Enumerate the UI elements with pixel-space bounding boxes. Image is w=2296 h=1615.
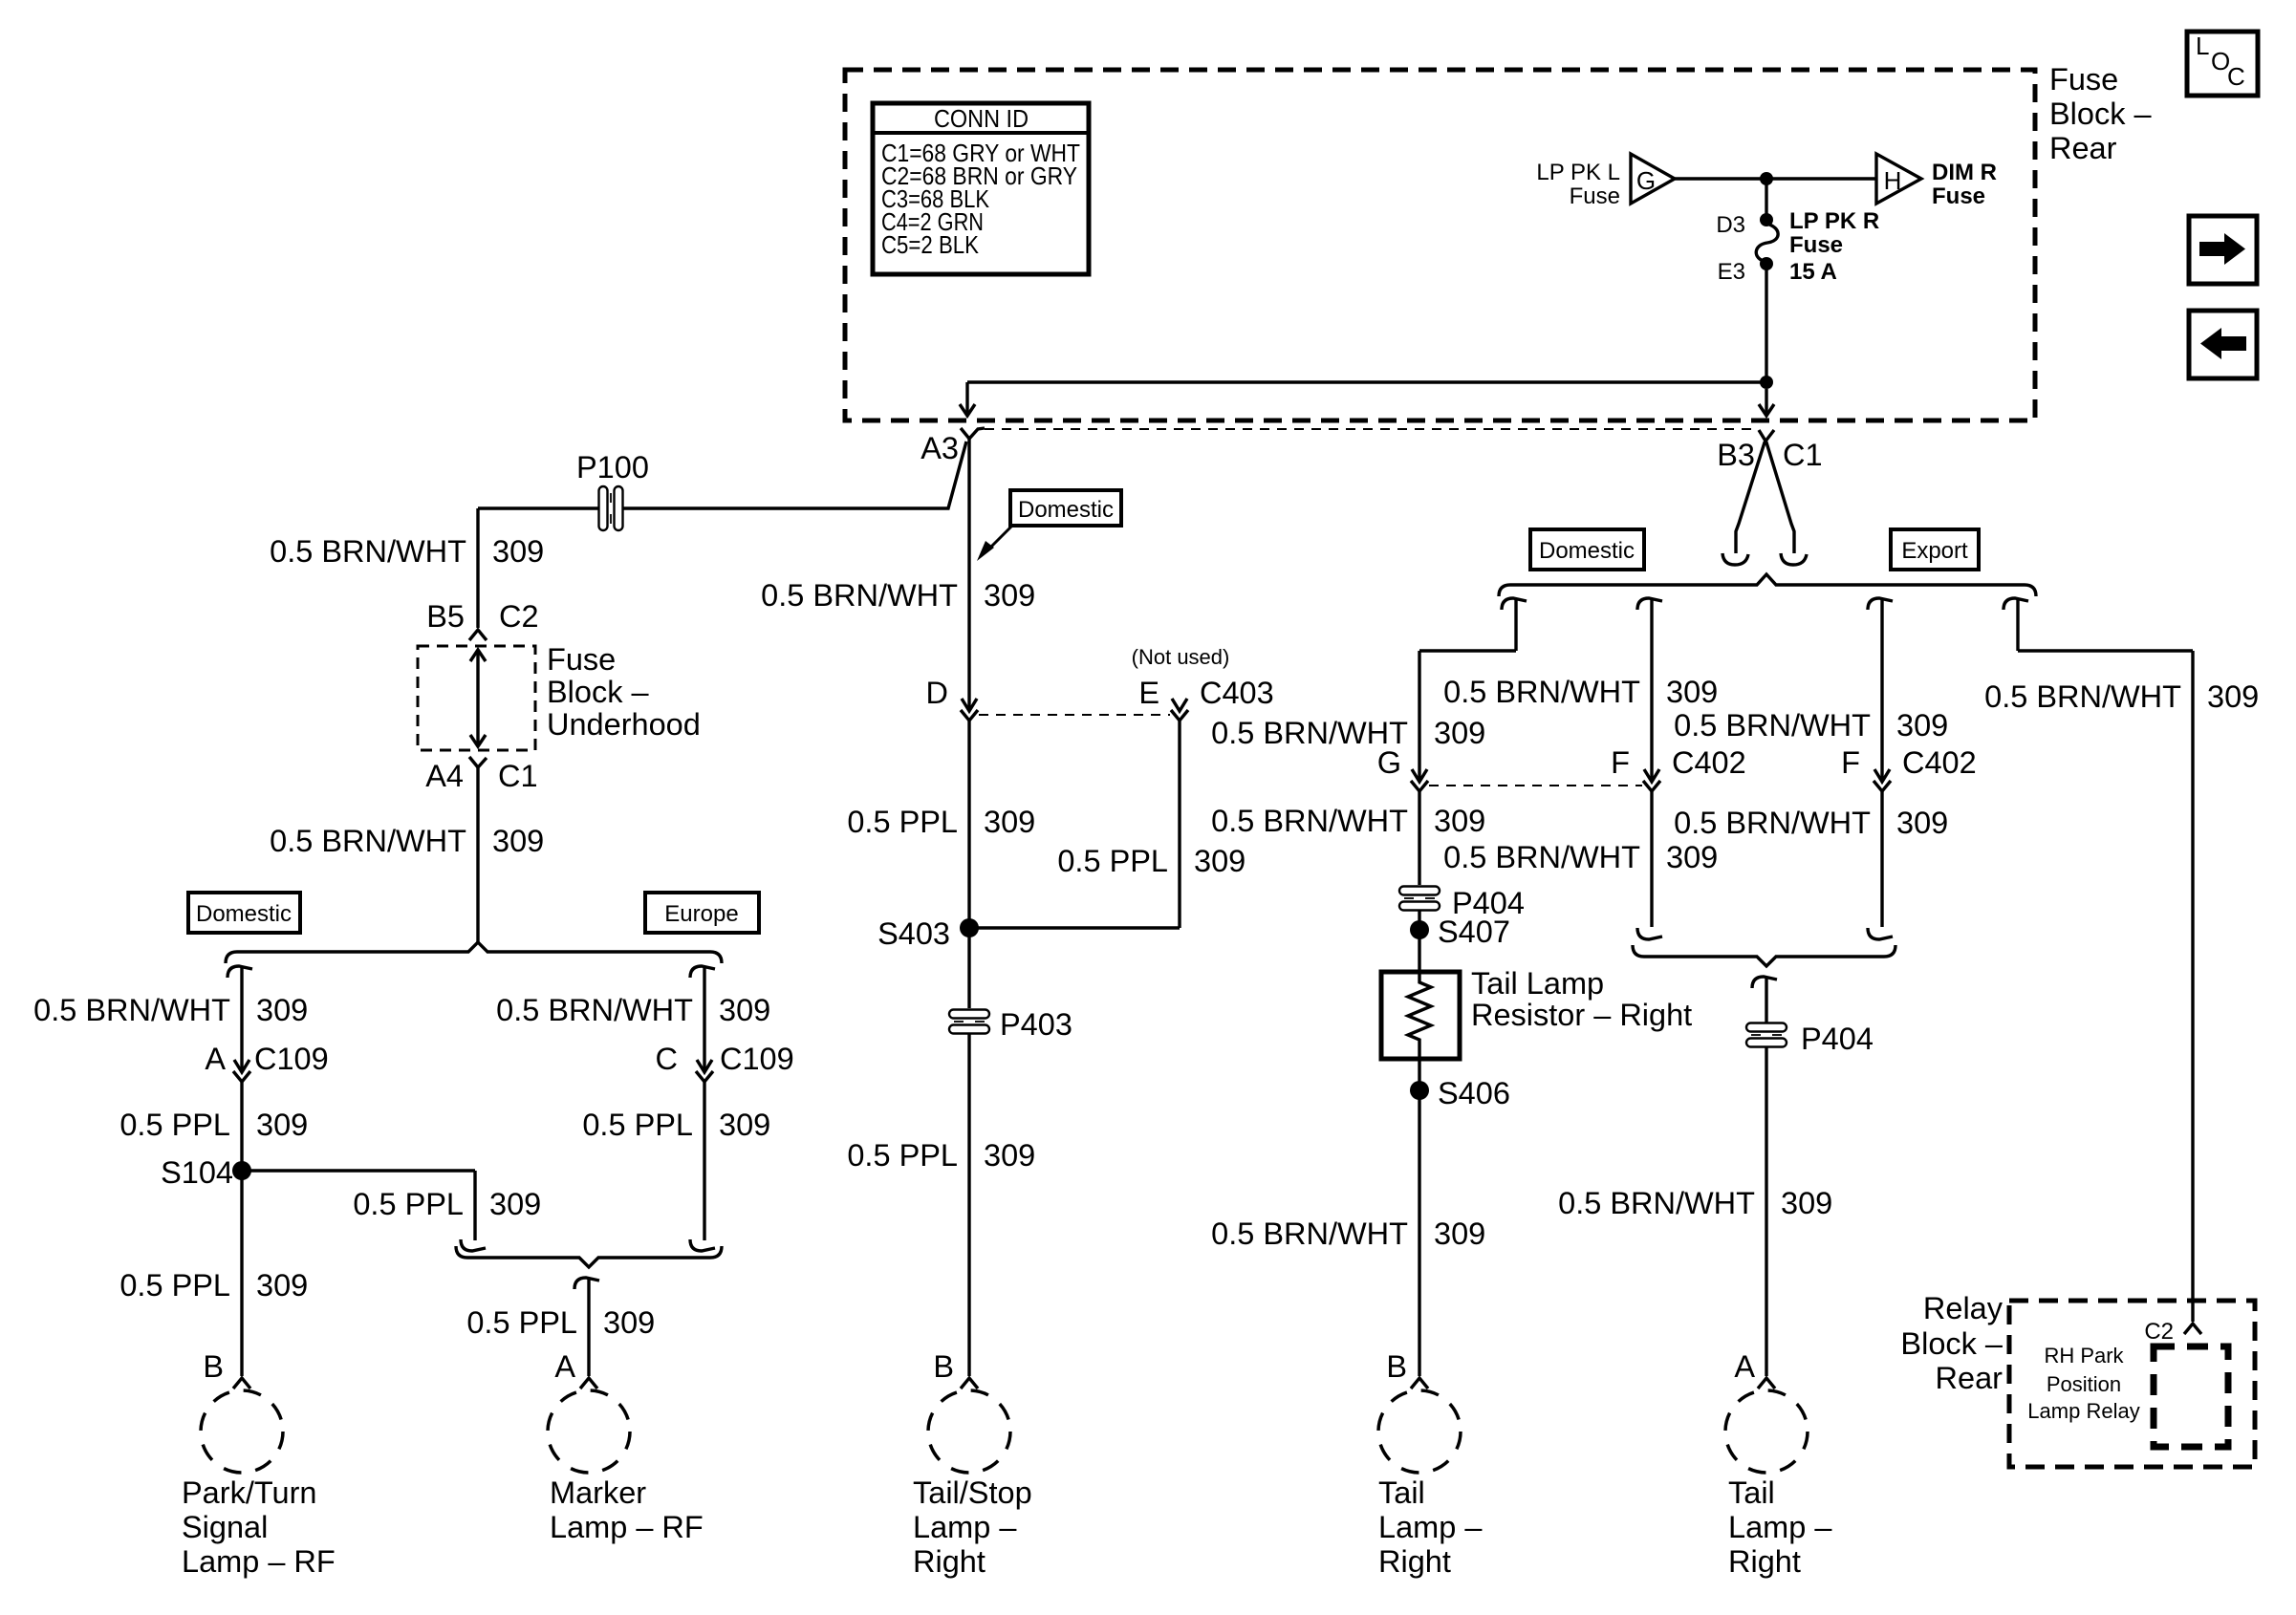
wire branch2 lower [1650,790,1653,927]
pin E3 [1718,257,1773,285]
label Tail Lamp Resistor - Right [1471,966,1692,1032]
svg-text:RH Park: RH Park [2044,1344,2124,1367]
svg-text:Signal: Signal [182,1510,268,1544]
wire S104 branch right [242,1171,475,1240]
svg-text:Rear: Rear [2049,131,2117,165]
label ppl 309 left2 [119,1268,308,1303]
connector F / C402 first [1611,745,1746,791]
hook europe end [690,1239,715,1251]
callout box Export [1891,529,1979,570]
svg-text:A: A [554,1349,575,1384]
svg-text:S104: S104 [161,1155,233,1190]
fuse element LP PK R 15A [1756,224,1778,262]
svg-text:F: F [1611,745,1630,780]
wire branch3 lower [1880,790,1883,927]
wire S104 down to lamp [240,1171,243,1376]
svg-text:Resistor – Right: Resistor – Right [1471,998,1692,1032]
label brnwht 309 tail2 [1558,1186,1832,1220]
svg-text:0.5 PPL: 0.5 PPL [847,805,958,839]
svg-text:D3: D3 [1716,212,1745,238]
label ppl 309 left1 [119,1108,308,1142]
branch hook 3 [1868,598,1893,610]
svg-text:C5=2 BLK: C5=2 BLK [881,230,980,259]
svg-text:Fuse: Fuse [1570,183,1620,209]
svg-text:Right: Right [1378,1544,1451,1579]
label LP PK L Fuse [1536,160,1620,209]
svg-text:Fuse: Fuse [547,642,616,677]
brace marker join [456,1246,722,1267]
label Park/Turn Signal Lamp - RF [182,1475,336,1579]
wire A to S104 [240,1081,243,1171]
bus junction [1760,376,1773,389]
svg-text:309: 309 [603,1305,655,1340]
callout box Europe [645,893,759,933]
svg-text:0.5 BRN/WHT: 0.5 BRN/WHT [1558,1186,1755,1220]
svg-text:C109: C109 [720,1042,794,1076]
hook marker feed [574,1278,599,1289]
svg-text:0.5 BRN/WHT: 0.5 BRN/WHT [1443,675,1640,709]
svg-text:Position: Position [2047,1372,2121,1396]
svg-text:Lamp –: Lamp – [1378,1510,1483,1544]
svg-text:Park/Turn: Park/Turn [182,1475,316,1510]
wire A3 exit with arrow [960,382,975,416]
wire C down [703,1081,705,1240]
label brnwht 309 tail [1211,1217,1485,1251]
svg-text:E3: E3 [1718,259,1745,285]
splice S406 [1410,1076,1510,1110]
svg-text:Rear: Rear [1936,1361,2004,1395]
svg-text:309: 309 [1194,844,1245,878]
svg-text:0.5 BRN/WHT: 0.5 BRN/WHT [761,578,958,613]
svg-text:0.5 BRN/WHT: 0.5 BRN/WHT [496,993,693,1027]
label Fuse Block - Underhood [547,642,701,742]
wire G to H [1675,177,1876,180]
connector C2 relay [2144,1319,2201,1345]
connector B tail right [1386,1349,1428,1389]
connector B park/turn [203,1349,250,1389]
label ppl 309 midD [847,805,1035,839]
svg-text:Lamp – RF: Lamp – RF [550,1510,704,1544]
branch hook domestic left [227,966,252,978]
svg-text:309: 309 [1434,716,1485,750]
svg-text:309: 309 [256,1108,308,1142]
wire branch1 to G [1419,598,1516,782]
wire down to B5 [476,508,479,628]
label brnwht 309 europe [496,993,770,1027]
svg-text:Tail/Stop: Tail/Stop [913,1475,1032,1510]
wire marker down [587,1278,590,1376]
svg-text:LP PK R: LP PK R [1789,208,1879,234]
label brnwht 309 mid [761,578,1035,613]
svg-text:Block –: Block – [547,675,650,709]
label LP PK R Fuse 15 A [1789,208,1879,285]
wire E down and to S403 [969,720,1180,928]
svg-text:(Not used): (Not used) [1132,645,1230,669]
svg-text:S407: S407 [1438,915,1510,949]
label ppl 309 europe2 [582,1108,770,1142]
lamp Tail/Stop Right [928,1390,1010,1473]
svg-text:Tail Lamp: Tail Lamp [1471,966,1604,1001]
lamp Tail Right 2 [1725,1390,1808,1473]
label P100 [576,450,649,484]
label ppl 309 marker [466,1305,655,1340]
svg-text:S403: S403 [877,916,950,951]
svg-text:LP PK L: LP PK L [1536,160,1620,185]
svg-text:309: 309 [1896,708,1948,743]
connector B3 / C1 splice-out [1717,430,1822,565]
svg-text:0.5 PPL: 0.5 PPL [1057,844,1168,878]
splice S407 [1410,915,1510,949]
wire P404 to S407 [1418,910,1420,970]
svg-text:Right: Right [913,1544,986,1579]
wire tail feed down [1765,977,1767,1376]
fuse symbol H (DIM R Fuse) [1876,154,1921,204]
splice S104 [161,1155,251,1190]
svg-text:Domestic: Domestic [1018,497,1114,523]
svg-text:S406: S406 [1438,1076,1510,1110]
svg-text:0.5 BRN/WHT: 0.5 BRN/WHT [1211,1217,1408,1251]
hook S104 branch end [461,1239,486,1251]
svg-text:Lamp – RF: Lamp – RF [182,1544,336,1579]
branch hook europe [690,966,715,978]
connector D / C403 [926,676,978,721]
svg-text:309: 309 [489,1187,541,1221]
wire junction to D3 [1765,179,1767,220]
svg-text:309: 309 [1666,675,1718,709]
svg-text:DIM R: DIM R [1932,160,1997,185]
wire G lower [1418,790,1420,885]
callout box Domestic right [1530,529,1644,570]
brace fuse output split [1499,574,2036,596]
svg-text:309: 309 [492,534,544,569]
bus wire across box [967,380,1766,383]
svg-text:P404: P404 [1801,1022,1874,1056]
svg-text:309: 309 [256,993,308,1027]
svg-text:H: H [1884,166,1902,195]
left arrow box [2189,311,2257,378]
label ppl 309 s104br [353,1187,541,1221]
relay inner dashed box [2154,1346,2228,1447]
svg-text:C1: C1 [1783,438,1823,472]
label brnwht 309 a4 [270,824,544,858]
svg-text:C2: C2 [499,599,539,634]
tail lamp resistor box [1381,972,1460,1059]
wire europe down [703,966,705,1072]
svg-text:L: L [2196,32,2209,60]
svg-text:C2: C2 [2144,1319,2174,1345]
wire P403 down to lamp [967,1033,970,1376]
label brnwht 309 F2 below [1674,806,1948,840]
svg-text:C: C [656,1042,678,1076]
inline connector P403 [948,1007,1072,1042]
label RH Park Position Lamp Relay [2027,1344,2139,1423]
resistor element [1408,970,1431,1061]
connector A3 [921,428,985,465]
junction at fuse feed [1760,172,1773,185]
label (Not used) [1132,645,1230,669]
label brnwht 309 dom left [33,993,308,1027]
label brnwht 309 G above [1211,716,1485,750]
svg-text:0.5 PPL: 0.5 PPL [353,1187,464,1221]
svg-text:C402: C402 [1672,745,1746,780]
svg-text:B: B [203,1349,224,1384]
lamp Park/Turn Signal RF [201,1390,283,1473]
label Tail/Stop Lamp Right [913,1475,1032,1579]
svg-text:G: G [1636,166,1656,195]
svg-text:Relay: Relay [1923,1291,2004,1325]
hook branch2 bottom [1637,928,1662,939]
fuse symbol G (LP PK L Fuse) [1631,154,1675,204]
label DIM R Fuse [1932,160,1997,209]
wire E3 down to bus [1765,268,1767,382]
svg-text:A: A [1734,1349,1755,1384]
svg-text:309: 309 [719,1108,770,1142]
connector B tail/stop [933,1349,978,1389]
svg-text:15 A: 15 A [1789,259,1837,285]
svg-text:Right: Right [1728,1544,1801,1579]
svg-text:309: 309 [1781,1186,1832,1220]
inline connector P404 mid [1745,1022,1874,1056]
lamp Tail Right 1 [1378,1390,1461,1473]
relay block rear dashed box [2009,1301,2255,1467]
svg-text:Export: Export [1901,538,1968,564]
label brnwht 309 F1 below [1443,840,1718,874]
wire D down to S403 [967,720,970,1008]
svg-text:Block –: Block – [1900,1326,2004,1361]
CONN ID table [873,103,1089,274]
label brnwht 309 G below [1211,804,1485,838]
svg-text:309: 309 [2207,679,2259,714]
svg-text:P403: P403 [1000,1007,1072,1042]
svg-text:E: E [1138,676,1159,710]
connector G / C402 [1377,745,1428,791]
svg-text:Lamp –: Lamp – [913,1510,1017,1544]
LOC legend box [2187,32,2258,96]
svg-text:C1: C1 [498,759,538,793]
svg-text:Lamp –: Lamp – [1728,1510,1832,1544]
svg-text:Europe: Europe [664,901,738,927]
svg-text:0.5 BRN/WHT: 0.5 BRN/WHT [1674,708,1871,743]
svg-text:C: C [2227,62,2245,91]
wire branch2 [1650,598,1653,782]
svg-text:B5: B5 [426,599,465,634]
svg-text:0.5 BRN/WHT: 0.5 BRN/WHT [1443,840,1640,874]
svg-text:B: B [1386,1349,1407,1384]
svg-text:C109: C109 [254,1042,329,1076]
brace tail lamp join [1633,945,1895,966]
wire export branch [2018,598,2193,1322]
callout box Domestic left [188,893,300,933]
inline connector P404 left [1398,886,1525,920]
wire domestic left down [240,966,243,1072]
svg-text:CONN ID: CONN ID [934,104,1029,133]
svg-text:Underhood: Underhood [547,707,701,742]
wire branch3 [1880,598,1883,782]
label brnwht 309 F2 above [1674,708,1948,743]
wire A4 down to brace [476,767,479,942]
wire resistor to S406 [1418,1061,1420,1376]
inline connector P100 [599,486,623,530]
label Marker Lamp - RF [550,1475,704,1544]
svg-text:309: 309 [492,824,544,858]
label Relay Block - Rear [1900,1291,2004,1395]
lamp Marker RF [548,1390,630,1473]
svg-text:309: 309 [984,805,1035,839]
svg-text:0.5 PPL: 0.5 PPL [582,1108,693,1142]
svg-text:0.5 PPL: 0.5 PPL [847,1138,958,1173]
connector A marker [554,1349,597,1389]
label Tail Lamp Right 1 [1378,1475,1483,1579]
label brnwht 309 p100 [270,534,544,569]
svg-text:D: D [926,676,948,710]
dashed line G to F [1429,785,1642,786]
svg-text:C402: C402 [1902,745,1977,780]
svg-text:0.5 BRN/WHT: 0.5 BRN/WHT [33,993,230,1027]
fuse block underhood dashed box [418,646,535,750]
branch hook 4 [2004,598,2028,610]
brace left split [226,942,722,963]
svg-text:A: A [205,1042,226,1076]
svg-text:Tail: Tail [1378,1475,1425,1510]
connector A4 / C1 [425,757,537,793]
svg-text:C403: C403 [1200,676,1274,710]
connector B5 / C2 [426,599,538,640]
svg-text:B3: B3 [1717,438,1755,472]
pin D3 [1716,212,1773,238]
dashed connector line A3 to B3 [985,428,1757,430]
branch hook 1 [1502,598,1527,610]
svg-text:309: 309 [1434,1217,1485,1251]
svg-text:F: F [1841,745,1860,780]
svg-text:A3: A3 [921,431,959,465]
svg-text:0.5 PPL: 0.5 PPL [119,1268,230,1303]
label Tail Lamp Right 2 [1728,1475,1832,1579]
callout box Domestic middle with arrow [977,490,1121,561]
svg-text:Fuse: Fuse [2049,62,2118,97]
connector F / C402 second [1841,745,1977,791]
svg-text:B: B [933,1349,954,1384]
label ppl 309 midE [1057,844,1245,878]
hook branch3 bottom [1868,928,1893,939]
svg-text:Marker: Marker [550,1475,646,1510]
svg-text:Tail: Tail [1728,1475,1775,1510]
svg-text:309: 309 [1666,840,1718,874]
label Fuse Block - Rear [2049,62,2153,165]
svg-text:309: 309 [256,1268,308,1303]
wire B3 exit with arrow [1759,389,1774,416]
splice S403 [877,916,979,951]
right arrow box [2189,216,2257,284]
dashed line D to E [979,714,1170,716]
svg-text:P100: P100 [576,450,649,484]
svg-text:0.5 BRN/WHT: 0.5 BRN/WHT [1984,679,2181,714]
svg-text:A4: A4 [425,759,464,793]
label ppl 309 midB [847,1138,1035,1173]
hook tail feed [1752,977,1777,988]
wire fuse block to P100 and left [478,441,966,508]
svg-text:Lamp Relay: Lamp Relay [2027,1399,2139,1423]
connector A tail right [1734,1349,1775,1389]
svg-text:309: 309 [1434,804,1485,838]
svg-text:Domestic: Domestic [196,901,292,927]
wire A3 down to D [967,439,970,711]
svg-text:309: 309 [984,1138,1035,1173]
label brnwht 309 export [1984,679,2259,714]
svg-text:Fuse: Fuse [1789,232,1843,258]
svg-text:0.5 PPL: 0.5 PPL [466,1305,577,1340]
svg-text:309: 309 [1896,806,1948,840]
svg-text:Domestic: Domestic [1539,538,1635,564]
label brnwht 309 F1 above [1443,675,1718,709]
branch hook 2 [1637,598,1662,610]
svg-text:0.5 BRN/WHT: 0.5 BRN/WHT [270,824,466,858]
fuse block rear dashed outline [845,70,2035,420]
connector C / C109 [656,1042,794,1082]
svg-text:0.5 PPL: 0.5 PPL [119,1108,230,1142]
internal wire with arrows [470,650,486,746]
connector E / C403 [1138,676,1273,721]
svg-text:Fuse: Fuse [1932,183,1985,209]
svg-text:309: 309 [719,993,770,1027]
connector A / C109 [205,1042,328,1082]
svg-text:0.5 BRN/WHT: 0.5 BRN/WHT [270,534,466,569]
svg-text:G: G [1377,745,1401,780]
svg-text:309: 309 [984,578,1035,613]
svg-text:0.5 BRN/WHT: 0.5 BRN/WHT [1211,804,1408,838]
svg-text:0.5 BRN/WHT: 0.5 BRN/WHT [1674,806,1871,840]
svg-text:Block –: Block – [2049,97,2153,131]
